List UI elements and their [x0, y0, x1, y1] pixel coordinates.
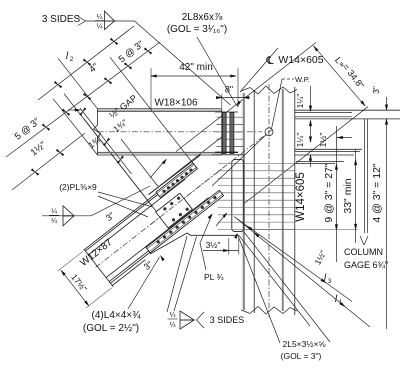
end connection bottom edges [215, 151, 238, 153]
17.5 ext ticks [58, 251, 83, 271]
l1 dimension line [236, 218, 370, 327]
svg-text:(GOL = 2½"): (GOL = 2½") [83, 323, 139, 334]
dim 33 min [355, 150, 357, 243]
web splice plate [156, 193, 193, 228]
svg-text:(GOL = 3"): (GOL = 3") [281, 351, 322, 361]
chain line B [6, 42, 160, 157]
beam end angle bar 2 [230, 113, 234, 154]
weld tail top [78, 17, 86, 26]
column bottom break [241, 307, 297, 315]
weld leader left [74, 186, 150, 216]
gap chain arrows [79, 112, 82, 116]
WP circle [265, 128, 273, 136]
svg-text:¼: ¼ [51, 209, 57, 216]
ext line at 229.5 [246, 229, 358, 231]
gusset-to-column angle 2L5 [232, 159, 244, 231]
dim 3.5 gusset [203, 250, 239, 252]
l3 dimension line [234, 217, 352, 302]
upper splice bolts [189, 169, 192, 172]
beam left end line with break [94, 109, 101, 155]
weld triangle top [105, 11, 115, 21]
svg-text:(2)PL⅜×9: (2)PL⅜×9 [59, 182, 97, 192]
svg-text:1¼": 1¼" [295, 94, 305, 109]
svg-text:¼: ¼ [97, 23, 103, 30]
ext line upper strip end [110, 57, 193, 163]
svg-text:W14×605: W14×605 [295, 172, 307, 222]
chain B ticks [42, 124, 46, 127]
svg-text:GAGE 6¾": GAGE 6¾" [344, 260, 388, 270]
column top break [241, 86, 297, 94]
Lw dimension line [314, 46, 366, 107]
weld bottom tail [197, 312, 205, 328]
svg-text:PL ¾: PL ¾ [204, 272, 224, 282]
bolt lines end angles [217, 116, 244, 118]
svg-text:3: 3 [328, 278, 332, 285]
end connection top edge [215, 111, 238, 113]
svg-text:3½": 3½" [206, 240, 221, 250]
svg-text:33" min: 33" min [342, 178, 354, 213]
dim 1.5 right horizontal arrow [337, 137, 352, 139]
dim 8in [216, 97, 249, 99]
weld leader top [115, 21, 231, 105]
chain line A [38, 26, 134, 100]
chain ext line from beam end top [58, 58, 98, 109]
dim 17.5 brace end [61, 270, 89, 306]
svg-text:1¼": 1¼" [295, 133, 305, 148]
chain line C [12, 133, 85, 190]
leader PL 3/4 [200, 215, 212, 270]
svg-text:W14×605: W14×605 [278, 54, 323, 66]
svg-text:3 SIDES: 3 SIDES [210, 315, 245, 325]
svg-text:W18×106: W18×106 [154, 98, 198, 109]
arrow at gusset top ext [310, 155, 312, 167]
upper flange splice plate [156, 163, 197, 198]
svg-text:(4)L4×4×¾: (4)L4×4×¾ [92, 310, 142, 321]
column inner line left [253, 91, 255, 313]
CL label leader [240, 48, 278, 92]
beam W18x106 top flange [98, 108, 222, 110]
ext line web plate lower corner [84, 119, 169, 227]
dim 1.25 upper [310, 86, 312, 111]
svg-text:W.P.: W.P. [295, 75, 310, 84]
svg-text:4 @ 3" = 12": 4 @ 3" = 12" [371, 163, 383, 223]
chain C ticks [56, 149, 60, 152]
svg-text:1½": 1½" [318, 133, 328, 148]
beam end angle bar 1 [222, 113, 226, 154]
beam centerline [98, 131, 263, 133]
dim 42in min [151, 75, 236, 77]
long ext line right [386, 131, 388, 329]
svg-text:¼: ¼ [170, 312, 176, 319]
svg-text:2: 2 [70, 56, 74, 63]
free arrow near gusset start [150, 161, 165, 179]
COLUMN GAGE leader V [360, 236, 364, 245]
svg-text:42" min: 42" min [179, 62, 213, 73]
dim 3in top right [386, 97, 388, 110]
far side top lines [295, 109, 400, 111]
far side bottom lines [295, 148, 362, 150]
lower flange splice plate [146, 190, 224, 253]
svg-text:3 SIDES: 3 SIDES [42, 14, 81, 25]
svg-text:9 @ 3" = 27": 9 @ 3" = 27" [323, 163, 335, 223]
svg-text:¼: ¼ [97, 14, 103, 21]
gusset lower-left edge [150, 233, 239, 254]
gusset upper-left edge [149, 155, 201, 195]
beam W18x106 bottom flange [98, 152, 222, 154]
brace centerline over plate [151, 169, 222, 224]
gusset bolt rows [218, 163, 295, 165]
web splice bolts [177, 197, 180, 200]
ext line 52deg from gusset corner [239, 235, 310, 326]
brace member lines W12x87 [84, 168, 189, 250]
svg-text:1: 1 [339, 299, 343, 306]
column inner line right [282, 89, 284, 311]
svg-text:¼: ¼ [170, 322, 176, 329]
lower splice bolts [213, 196, 216, 199]
gusset top ext right [295, 154, 354, 156]
ext line web plate corner [64, 94, 153, 207]
dim 1.25 lower [310, 120, 312, 142]
chain ext line from beam end bottom [53, 99, 98, 155]
weld triangle left [63, 206, 74, 216]
perp chain P2 [121, 139, 158, 186]
brace centerline [96, 128, 274, 267]
chain A ticks [54, 81, 58, 84]
bolt row ext right short [296, 161, 344, 163]
column centerline [268, 84, 270, 317]
weld bottom leaders [167, 236, 187, 312]
svg-text:2L5×3½×⅝: 2L5×3½×⅝ [282, 339, 326, 349]
gage ext pair [363, 119, 365, 233]
brace end cut [84, 249, 114, 287]
far side angle lines short [295, 111, 352, 113]
svg-text:3": 3" [371, 86, 381, 94]
ext line 52deg from angle corner [244, 232, 330, 342]
svg-text:2L8x6x⅞: 2L8x6x⅞ [182, 12, 223, 23]
column right face [294, 87, 296, 315]
Lw extension line 1 through beam [176, 43, 316, 152]
column W14x605 left flange face [243, 93, 245, 310]
perp chain line P1 with gap arrows [80, 108, 132, 174]
leader L4 label [128, 257, 160, 309]
svg-text:(GOL = 3¹⁄₁₆"): (GOL = 3¹⁄₁₆") [167, 24, 227, 35]
weld bottom triangle [180, 311, 194, 320]
leader from WP down-left [212, 135, 266, 186]
svg-text:¼: ¼ [51, 218, 57, 225]
svg-text:COLUMN: COLUMN [344, 247, 383, 257]
gusset upper edge extension into beam [149, 137, 222, 195]
extra leader arrow at angle [216, 214, 226, 226]
leader 2L8 label [197, 37, 237, 106]
leader 2L5 [238, 235, 281, 344]
leader (2)PL label 1 [98, 192, 152, 207]
WP leader [272, 79, 283, 129]
arrow at beam end top [68, 109, 78, 111]
Lw extension line 2 across column [244, 107, 369, 204]
dim 9@3=27 [335, 152, 337, 262]
leader (2)PL label 2 [98, 196, 148, 217]
